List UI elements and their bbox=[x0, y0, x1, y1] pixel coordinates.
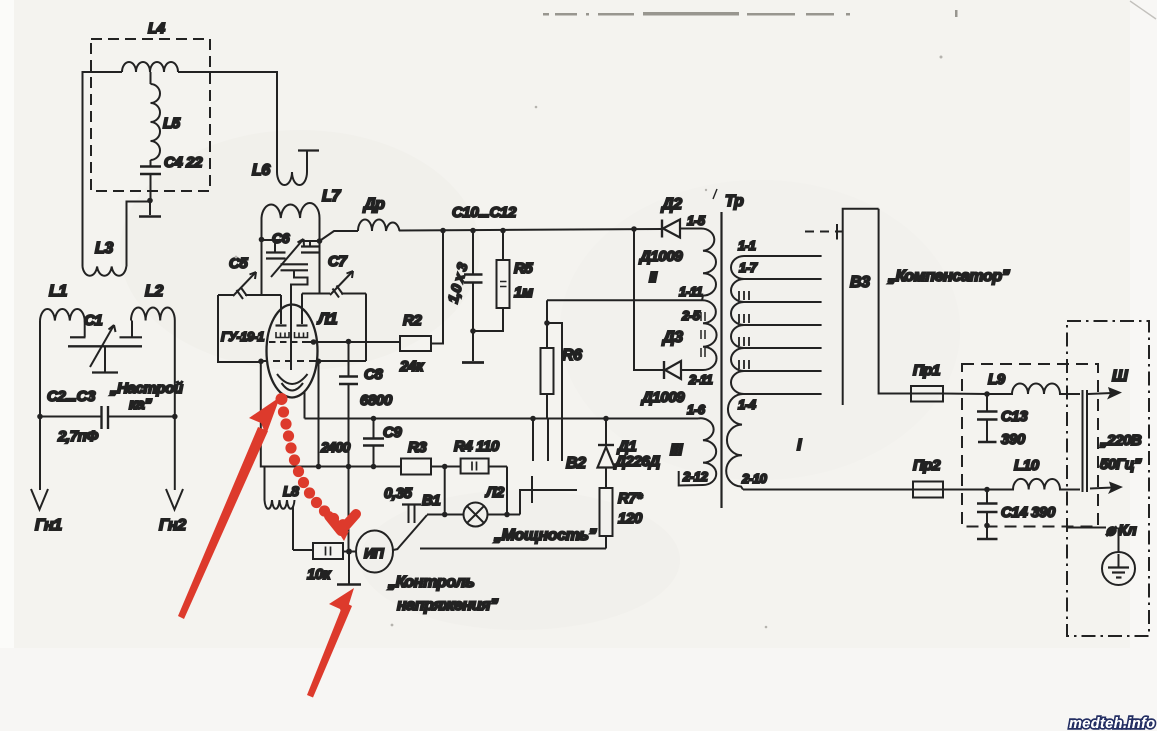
svg-text:C10...C12: C10...C12 bbox=[452, 204, 517, 221]
capacitor C9 bbox=[363, 416, 402, 470]
faint caption top bbox=[543, 10, 958, 17]
resistor R7* 120 bbox=[600, 488, 644, 549]
svg-text:ка”: ка” bbox=[129, 396, 152, 413]
svg-text:C4 22: C4 22 bbox=[164, 154, 203, 171]
svg-text:II: II bbox=[649, 269, 658, 286]
grid return wire 2400 column bbox=[319, 361, 351, 467]
right box wires bbox=[302, 241, 366, 361]
resistor R3 0,35 bbox=[384, 439, 431, 502]
svg-text:Д1009: Д1009 bbox=[638, 248, 683, 265]
switch B3 selector box bbox=[843, 209, 911, 405]
tap 5 smudged bbox=[739, 337, 822, 348]
node D2 bus bbox=[631, 226, 637, 232]
tube suppressor dashed bbox=[258, 359, 321, 365]
svg-text:Д226Д: Д226Д bbox=[613, 453, 660, 470]
capacitor C7 (variable) on right box bbox=[302, 253, 366, 298]
wire L4 right to L6 bbox=[178, 72, 277, 165]
capacitor C6 (split-stator variable) bbox=[262, 230, 320, 277]
tube anode wire to R2 bbox=[269, 339, 400, 345]
watermark medteh.info bbox=[1069, 716, 1156, 731]
wire C4 node to L3 bbox=[127, 202, 151, 267]
svg-text:1-6: 1-6 bbox=[687, 402, 706, 417]
svg-text:Д3: Д3 bbox=[661, 329, 683, 346]
wire D2 node down to D3 bbox=[634, 229, 663, 370]
red arrow 1 (to tube cathode) bbox=[178, 397, 280, 619]
svg-text:„Контроль: „Контроль bbox=[387, 574, 474, 591]
red hook arrowhead at meter junction bbox=[329, 514, 356, 541]
diode D2 D1009 bbox=[638, 196, 706, 286]
svg-text:C2...C3: C2...C3 bbox=[47, 388, 96, 405]
node anode C8 bbox=[346, 339, 352, 345]
wire L4 left bbox=[83, 72, 123, 267]
wire C6 rotor to tube center rod bbox=[291, 270, 308, 370]
fuse Pr1 bbox=[911, 362, 987, 402]
label Moshchnost bbox=[493, 527, 597, 544]
wire L4 tap bbox=[150, 72, 152, 84]
node under C4 bbox=[147, 198, 153, 204]
svg-text:Пр2: Пр2 bbox=[913, 457, 941, 474]
inductor L6 with terminal bbox=[252, 151, 319, 186]
svg-text:24к: 24к bbox=[399, 358, 425, 375]
svg-text:С6: С6 bbox=[272, 230, 290, 246]
wire lamp right bbox=[488, 467, 521, 518]
B3 wiper dashed bbox=[805, 224, 842, 240]
inductor L2 bbox=[131, 283, 175, 321]
capacitor C13 390 bbox=[977, 394, 1028, 448]
svg-text:В2: В2 bbox=[566, 455, 586, 472]
label Nastroyka bbox=[109, 380, 183, 413]
jack Gn1 bbox=[31, 417, 62, 535]
tube cathode arcs bbox=[277, 374, 308, 391]
wire to B2 contact bbox=[520, 476, 577, 515]
tap 4 smudged bbox=[739, 314, 822, 325]
inductor L5 bbox=[151, 84, 181, 160]
svg-text:R4 110: R4 110 bbox=[454, 438, 500, 455]
svg-text:В3: В3 bbox=[850, 274, 870, 291]
resistor R2 24k bbox=[399, 312, 431, 375]
scanner specks bbox=[235, 56, 943, 629]
wire grid left into tube bbox=[280, 295, 282, 324]
svg-text:C14 390: C14 390 bbox=[1001, 504, 1056, 521]
transformer core bbox=[713, 189, 744, 508]
capacitor C4 22 bbox=[140, 154, 203, 200]
svg-text:1-1: 1-1 bbox=[738, 238, 756, 253]
jack Gn2 bbox=[159, 417, 186, 535]
capacitor C10 bbox=[464, 231, 483, 332]
wire tap 1-11 to R6 bbox=[547, 284, 703, 323]
svg-text:„Настрой: „Настрой bbox=[109, 380, 183, 397]
red dotted pointer line bbox=[276, 393, 349, 530]
ground stub under IP junction bbox=[337, 552, 361, 585]
node L7 right bbox=[317, 238, 323, 244]
svg-text:R7*: R7* bbox=[618, 490, 643, 507]
resistor R8 10k bbox=[293, 543, 356, 583]
inductor L8 bbox=[265, 467, 300, 551]
svg-text:L6: L6 bbox=[252, 162, 270, 179]
wire R6 branch bbox=[547, 323, 562, 461]
node IP junction bbox=[346, 549, 352, 555]
node bus C10 bbox=[470, 228, 476, 234]
wire B1 to node bbox=[442, 467, 448, 518]
capacitor C14 390 bbox=[977, 490, 1056, 540]
capacitor C1 (split variable) bbox=[68, 312, 142, 373]
choke Dr bbox=[320, 196, 400, 241]
svg-text:R5: R5 bbox=[514, 260, 533, 277]
ground circle bbox=[1102, 528, 1135, 586]
svg-text:10к: 10к bbox=[307, 566, 332, 583]
switch B2 contacts bbox=[530, 416, 586, 472]
resistor R4 110 bbox=[454, 438, 507, 474]
inductor L7 bbox=[262, 188, 342, 241]
svg-text:2-11: 2-11 bbox=[688, 372, 713, 387]
svg-text:L5: L5 bbox=[163, 115, 181, 132]
svg-text:L1: L1 bbox=[49, 283, 67, 300]
capacitor C8 6800 bbox=[339, 342, 393, 552]
svg-text:0,35: 0,35 bbox=[384, 485, 413, 502]
wire L1 left down bbox=[39, 321, 41, 417]
svg-text:1-11: 1-11 bbox=[679, 284, 703, 299]
svg-text:Гн2: Гн2 bbox=[159, 517, 186, 534]
tube screen combs bbox=[276, 332, 308, 338]
resistor R5 1M bbox=[473, 231, 533, 332]
svg-text:1м: 1м bbox=[514, 284, 533, 301]
tube Л1 envelope bbox=[267, 305, 338, 398]
diode D3 D1009 bbox=[640, 329, 713, 406]
transformer winding III heater bbox=[670, 402, 716, 486]
svg-text:L2: L2 bbox=[145, 283, 163, 300]
wire L1 right to C1 bbox=[84, 321, 86, 338]
resistor R6 bbox=[541, 300, 583, 418]
svg-text:С9: С9 bbox=[383, 424, 402, 441]
inductor L1 bbox=[40, 283, 85, 321]
node L7 left bbox=[259, 237, 265, 243]
transformer winding IIIa bbox=[702, 300, 717, 370]
label 220V 50Hz bbox=[1099, 432, 1142, 473]
svg-text:С7: С7 bbox=[328, 253, 347, 270]
tap 2-10 line to Pr2 bbox=[741, 471, 913, 490]
svg-text:„220В: „220В bbox=[1099, 432, 1142, 449]
node bus R2 bbox=[440, 228, 446, 234]
svg-text:Д1009: Д1009 bbox=[640, 389, 685, 406]
svg-text:390: 390 bbox=[1001, 431, 1026, 448]
svg-text:напряжения”: напряжения” bbox=[397, 597, 498, 614]
lower bus bbox=[261, 361, 401, 466]
wire L2 left to C1 bbox=[131, 321, 133, 338]
lamp L2 bbox=[445, 484, 505, 527]
inductor L4 coil bbox=[122, 62, 178, 72]
svg-text:2-10: 2-10 bbox=[741, 471, 768, 486]
svg-text:50Гц”: 50Гц” bbox=[1100, 456, 1142, 473]
winding smudge marks left bbox=[701, 312, 705, 357]
svg-text:Л2: Л2 bbox=[485, 484, 505, 501]
svg-text:С5: С5 bbox=[229, 255, 248, 272]
svg-text:6800: 6800 bbox=[360, 392, 393, 409]
wire IP to switch bbox=[393, 549, 398, 550]
corner mark top right bbox=[1130, 1, 1156, 19]
label Kompensator bbox=[887, 268, 1010, 285]
tap 1-7 bbox=[739, 260, 822, 279]
arrow pin 220V bottom bbox=[1090, 482, 1123, 495]
svg-text:Тр: Тр bbox=[725, 193, 744, 210]
node C8 lower bus bbox=[346, 464, 352, 470]
svg-text:„Компенсатор”: „Компенсатор” bbox=[887, 268, 1010, 285]
cathode bus bbox=[305, 418, 699, 420]
svg-text:Пр1: Пр1 bbox=[913, 362, 940, 379]
transformer winding I bbox=[726, 256, 802, 490]
HV bus wire bbox=[399, 204, 662, 231]
svg-text:C13: C13 bbox=[1001, 408, 1028, 425]
svg-text:2,7пФ: 2,7пФ bbox=[57, 428, 98, 445]
svg-text:1-5: 1-5 bbox=[687, 213, 706, 228]
svg-text:ИП: ИП bbox=[364, 545, 385, 561]
svg-text:medteh.info: medteh.info bbox=[1069, 716, 1156, 731]
label 1,0 x 3 bbox=[444, 261, 470, 305]
svg-text:III: III bbox=[670, 442, 683, 459]
filter shield box dashed bbox=[962, 364, 1098, 527]
svg-text:„Мощность”: „Мощность” bbox=[493, 527, 597, 544]
svg-text:C1: C1 bbox=[84, 312, 102, 329]
tap 6 smudged bbox=[739, 360, 822, 371]
node line C2..C3 bbox=[37, 414, 177, 420]
svg-text:1-4: 1-4 bbox=[738, 397, 757, 412]
capacitor C2...C3 2,7pF bbox=[47, 388, 108, 445]
inductor L9 bbox=[987, 371, 1080, 394]
svg-text:120: 120 bbox=[618, 510, 643, 527]
svg-text:L7: L7 bbox=[322, 188, 341, 205]
ground under C10 bbox=[462, 331, 484, 363]
svg-text:L3: L3 bbox=[95, 240, 113, 257]
switch B1 bbox=[397, 492, 445, 550]
inductor L10 bbox=[987, 457, 1080, 490]
connector Sh box dash-dot bbox=[1067, 321, 1149, 636]
svg-text:Др: Др bbox=[362, 196, 385, 213]
terminal Kl bbox=[1067, 522, 1137, 539]
svg-text:L4: L4 bbox=[148, 20, 166, 37]
bottom return wire bbox=[420, 548, 606, 550]
svg-text:2400: 2400 bbox=[320, 439, 351, 455]
svg-text:ГУ-19-1: ГУ-19-1 bbox=[221, 329, 264, 344]
svg-text:R3: R3 bbox=[408, 439, 427, 456]
svg-text:R2: R2 bbox=[403, 312, 422, 329]
svg-text:Ш: Ш bbox=[1112, 368, 1128, 385]
node C10 bottom bbox=[470, 328, 476, 334]
red arrow 2 (to ground stub) bbox=[307, 588, 354, 698]
diode D1 D226D bbox=[598, 416, 661, 488]
inductor L4 (shield box, dashed) bbox=[91, 20, 210, 191]
tap 3 smudged bbox=[739, 291, 822, 302]
meter IP bbox=[356, 531, 393, 573]
node C14 bbox=[984, 487, 990, 493]
inductor L3 bbox=[83, 240, 127, 276]
svg-text:Гн1: Гн1 bbox=[35, 517, 62, 534]
svg-text:L8: L8 bbox=[283, 483, 299, 499]
connector pins bbox=[1083, 390, 1088, 492]
grid box left (GU-19-1) bbox=[218, 295, 264, 362]
svg-text:R6: R6 bbox=[562, 347, 582, 364]
svg-text:Л1: Л1 bbox=[317, 311, 338, 328]
node bus R5 bbox=[500, 228, 506, 234]
svg-text:2-5: 2-5 bbox=[681, 308, 701, 323]
svg-text:В1: В1 bbox=[422, 492, 440, 509]
wire L2 right down bbox=[174, 321, 176, 417]
svg-text:Д2: Д2 bbox=[660, 196, 682, 213]
arrow pin 220V top bbox=[1088, 387, 1122, 400]
tap 1-4 bbox=[738, 394, 822, 412]
ground under C4 bbox=[139, 201, 161, 217]
svg-text:1-7: 1-7 bbox=[739, 260, 758, 275]
capacitor C5 (variable) on grid box bbox=[218, 255, 281, 299]
node R3-R4 bbox=[431, 464, 461, 470]
svg-text:L9: L9 bbox=[988, 371, 1006, 388]
svg-text:2-12: 2-12 bbox=[682, 469, 709, 484]
transformer winding II bbox=[701, 228, 716, 300]
svg-text:L10: L10 bbox=[1014, 457, 1040, 474]
svg-text:С8: С8 bbox=[364, 366, 383, 383]
node C13 bbox=[984, 391, 990, 397]
svg-text:⌀ Кл: ⌀ Кл bbox=[1106, 522, 1137, 539]
wire cathode down bbox=[304, 391, 306, 419]
wire C6 left to grid box bbox=[261, 240, 263, 295]
fuse Pr2 bbox=[913, 457, 987, 498]
label Kontrol napryazheniya bbox=[387, 574, 498, 614]
tube grid electrodes bbox=[276, 324, 308, 326]
tap 1-1 bbox=[738, 238, 822, 256]
wire bus to R2 bbox=[431, 231, 443, 344]
node 2400 lower bus bbox=[316, 464, 322, 470]
